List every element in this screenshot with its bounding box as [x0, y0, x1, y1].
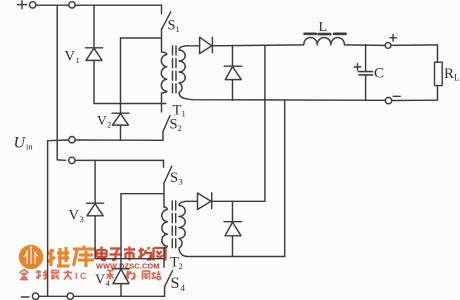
svg-text:1: 1 [76, 55, 80, 65]
svg-text:3: 3 [179, 177, 183, 187]
svg-text:U: U [14, 135, 27, 152]
svg-text:R: R [444, 66, 454, 82]
svg-text:S: S [170, 117, 178, 133]
svg-text:C: C [374, 66, 384, 82]
svg-text:V: V [97, 113, 107, 128]
svg-text:1: 1 [182, 109, 186, 119]
svg-text:4: 4 [181, 283, 186, 293]
svg-text:T: T [173, 103, 182, 119]
svg-text:3: 3 [80, 214, 84, 224]
svg-text:2: 2 [178, 123, 182, 133]
svg-text:2: 2 [179, 261, 183, 271]
svg-text:in: in [26, 142, 33, 152]
svg-text:V: V [95, 273, 105, 288]
svg-text:V: V [65, 49, 76, 65]
svg-text:S: S [168, 18, 176, 34]
svg-text:2: 2 [107, 120, 111, 130]
svg-text:1: 1 [176, 24, 180, 34]
svg-text:S: S [170, 170, 178, 186]
svg-text:L: L [454, 73, 460, 83]
svg-text:I C: I C [75, 271, 87, 281]
svg-text:V: V [69, 208, 80, 224]
svg-text:L: L [319, 20, 328, 35]
svg-text:S: S [171, 275, 180, 292]
